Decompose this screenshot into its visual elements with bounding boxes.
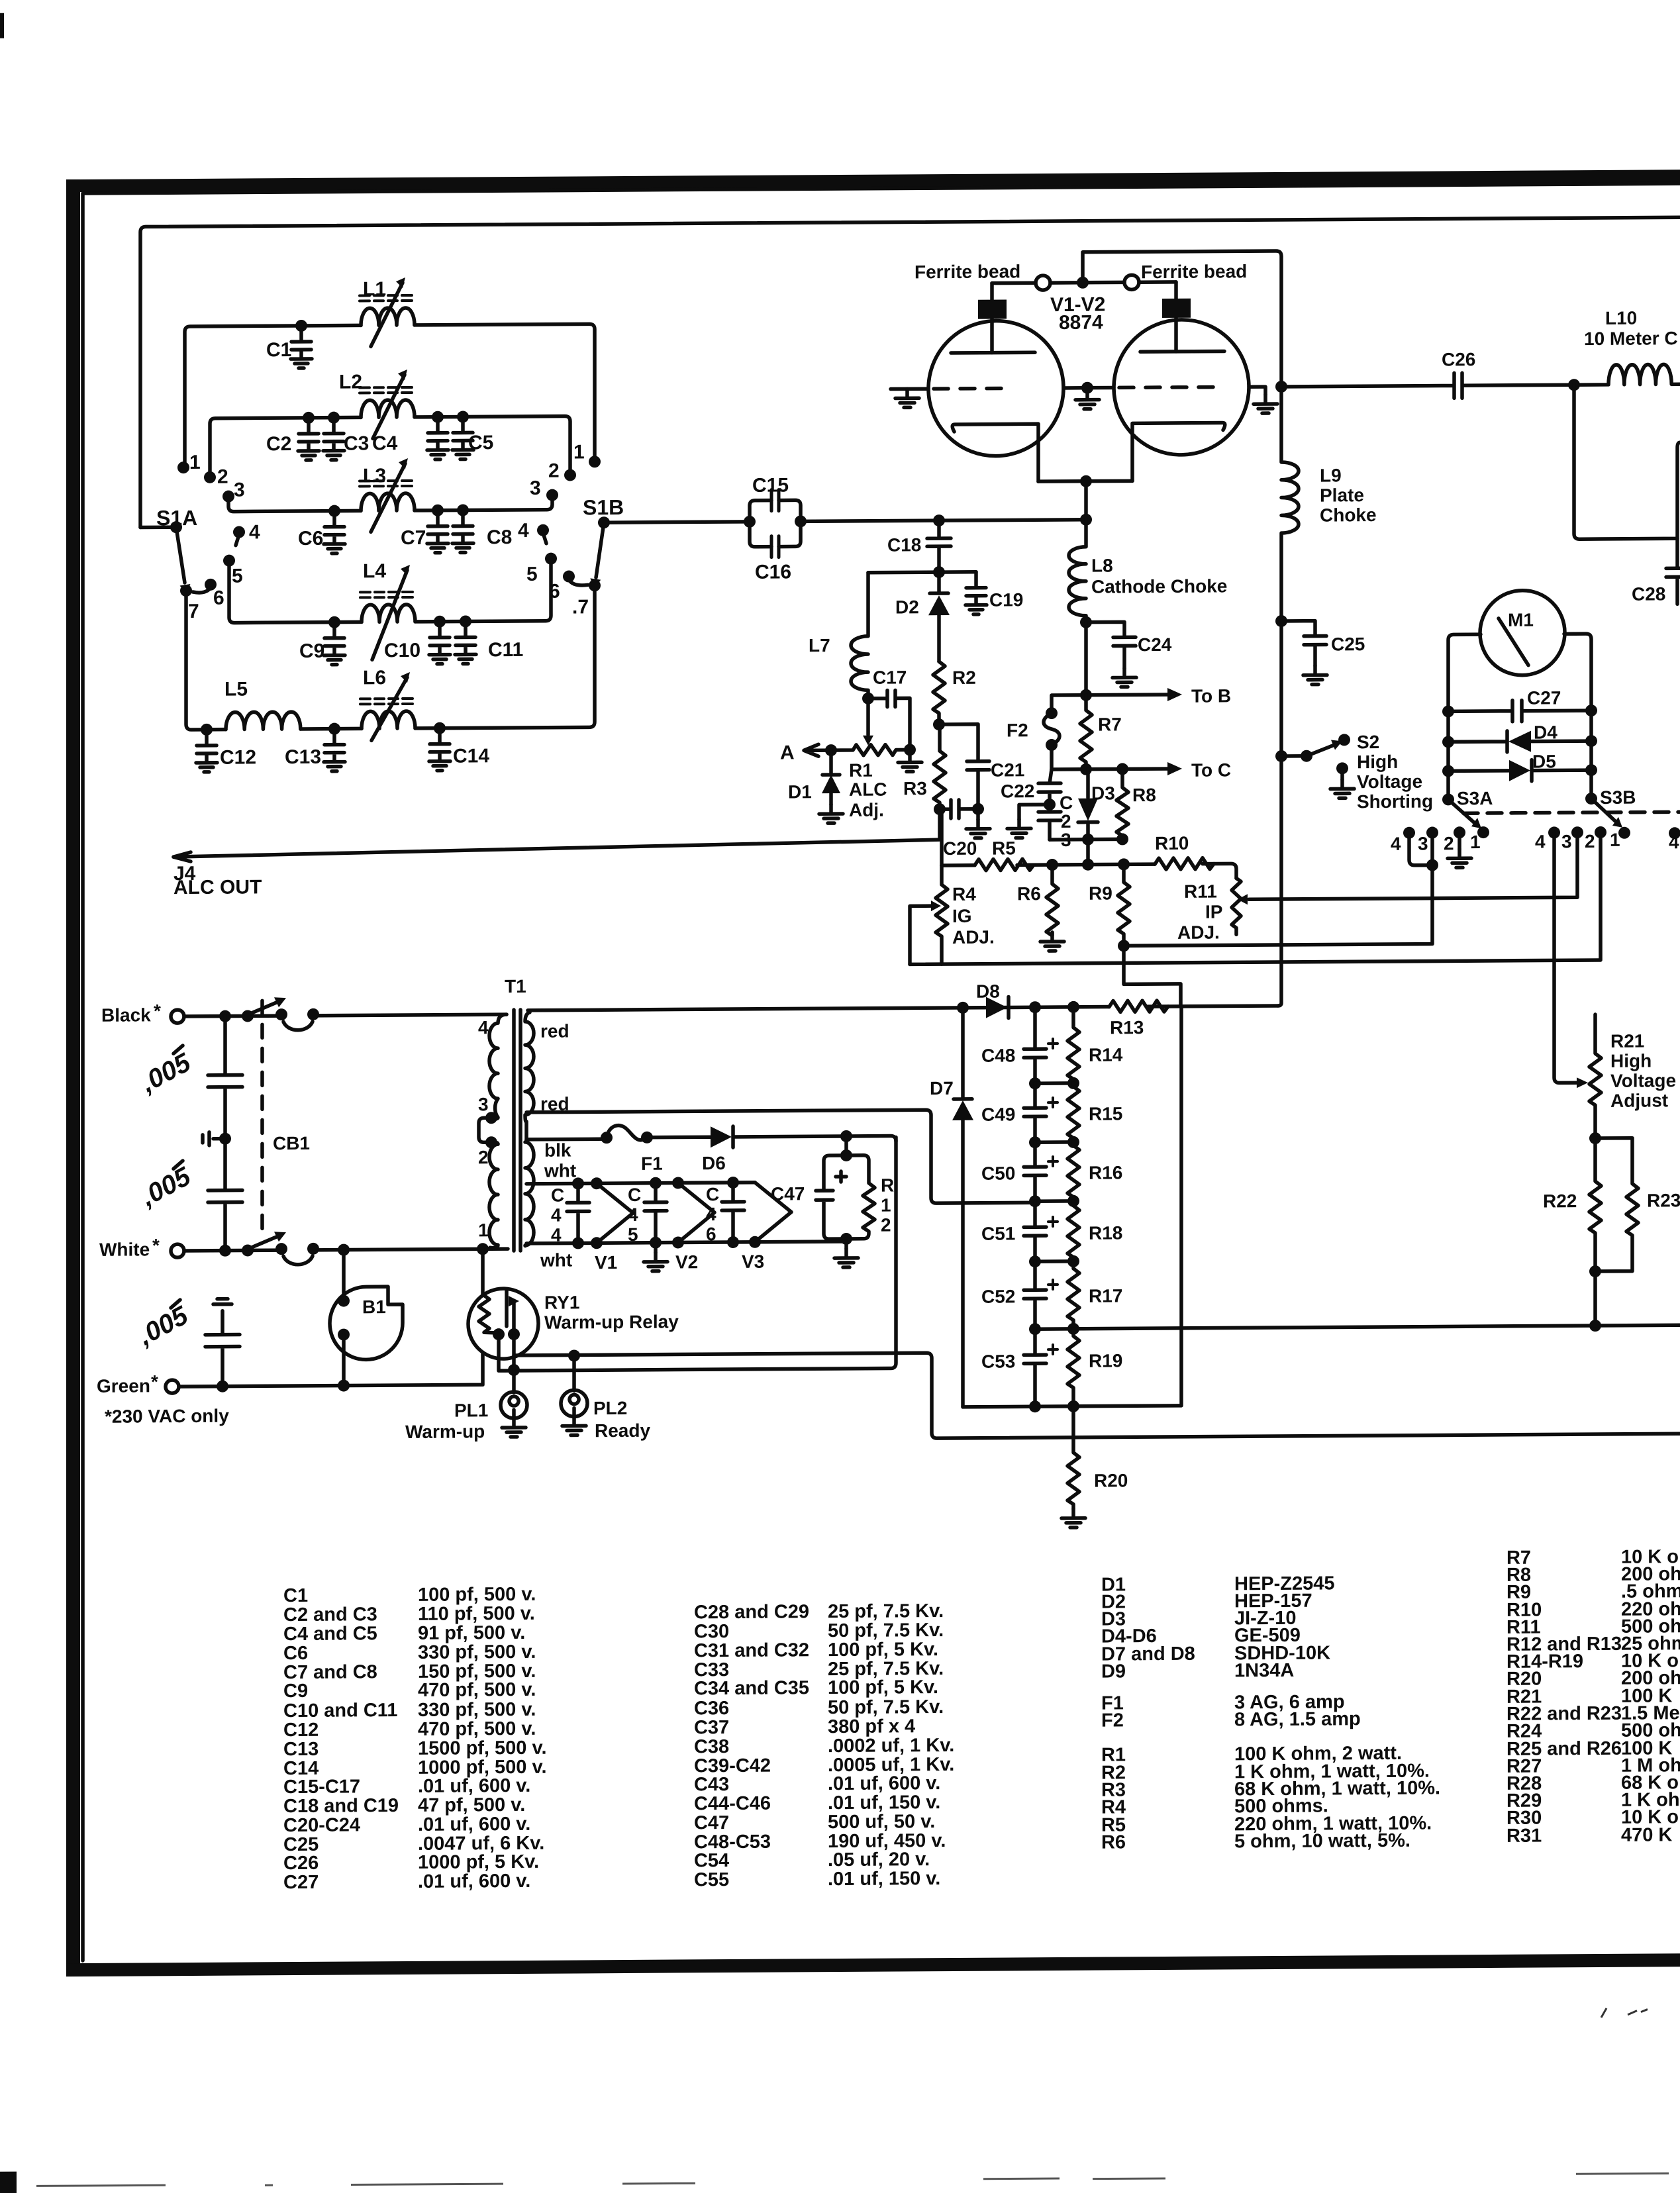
svg-text:R1: R1 [849, 760, 873, 781]
wire cathode bridge [1038, 481, 1132, 520]
wire S1A common [140, 525, 176, 529]
svg-text:Voltage: Voltage [1357, 771, 1422, 793]
svg-text:Green: Green [97, 1375, 150, 1396]
svg-text:4: 4 [249, 521, 260, 543]
capacitor C4 [427, 417, 448, 460]
capacitor C11 [455, 621, 476, 663]
svg-text:C2: C2 [266, 433, 291, 455]
wire green rail [179, 1352, 483, 1387]
inductor L3 [360, 458, 415, 532]
svg-text:C: C [551, 1185, 564, 1206]
svg-text:5 ohm, 10 watt, 5%.: 5 ohm, 10 watt, 5%. [1234, 1830, 1410, 1853]
relay RY1 [468, 1289, 538, 1359]
resistor R3 [934, 724, 946, 809]
svg-text:4: 4 [518, 520, 529, 542]
svg-text:50 pf, 7.5 Kv.: 50 pf, 7.5 Kv. [828, 1696, 944, 1718]
capacitor C1 [291, 326, 312, 368]
wire R9 link to ladder [1124, 946, 1181, 1006]
svg-text:Adj.: Adj. [849, 800, 884, 820]
svg-text:4: 4 [706, 1204, 716, 1224]
diode D5 [1442, 751, 1597, 781]
svg-text:1: 1 [189, 452, 201, 473]
breaker CB1 dashed [260, 1000, 264, 1231]
wire L4 row [229, 559, 551, 623]
resistor R18 [1067, 1201, 1079, 1261]
svg-text:8874: 8874 [1059, 312, 1103, 334]
svg-text:PL1: PL1 [454, 1400, 488, 1420]
svg-text:R10: R10 [1155, 833, 1189, 853]
ground grid left [895, 389, 919, 407]
svg-text:C1: C1 [283, 1585, 308, 1606]
connector J4 arrow [173, 852, 191, 861]
capacitor C20 [940, 800, 978, 820]
resistor R9 [1118, 864, 1130, 946]
resistor R10 [1155, 858, 1214, 870]
svg-text:C34 and C35: C34 and C35 [694, 1677, 809, 1699]
capacitor C48 [1024, 1007, 1058, 1083]
resistor R22 [1589, 1138, 1601, 1271]
svg-text:S1B: S1B [583, 495, 624, 519]
wire R11 wiper to S3B-3 [1249, 832, 1577, 899]
wire T1 wht tap / C44 row top rail [526, 1183, 755, 1184]
svg-text:S2: S2 [1357, 732, 1379, 752]
svg-text:L2: L2 [339, 371, 362, 393]
svg-text:F2: F2 [1007, 720, 1028, 740]
svg-text:2: 2 [548, 460, 560, 482]
wire J4 ALC line [173, 810, 940, 857]
svg-text:6: 6 [549, 581, 560, 603]
svg-text:L10: L10 [1605, 308, 1637, 328]
S1A contact 2 [204, 471, 216, 483]
svg-text:C14: C14 [453, 745, 489, 767]
svg-text:C49: C49 [981, 1104, 1015, 1124]
svg-text:C15: C15 [752, 474, 789, 496]
svg-text:5: 5 [628, 1224, 638, 1245]
S1A contact 4 [233, 526, 245, 538]
svg-text:ALC: ALC [849, 779, 887, 800]
svg-text:50 pf, 7.5 Kv.: 50 pf, 7.5 Kv. [828, 1620, 944, 1641]
S1A contact 5 [223, 555, 235, 567]
node C26/L10 [1568, 379, 1580, 391]
svg-text:1000 pf, 5 Kv.: 1000 pf, 5 Kv. [418, 1851, 539, 1873]
svg-text:4: 4 [628, 1204, 638, 1225]
diode D4 [1442, 722, 1597, 752]
wire To C row [1052, 769, 1171, 769]
svg-text:White: White [99, 1239, 150, 1259]
svg-text:C27: C27 [283, 1872, 319, 1893]
svg-text:Warm-up Relay: Warm-up Relay [544, 1311, 679, 1332]
capacitor C51 [1024, 1201, 1058, 1261]
svg-text:3: 3 [478, 1094, 489, 1114]
svg-text:B1: B1 [362, 1296, 386, 1317]
svg-text:91 pf, 500 v.: 91 pf, 500 v. [418, 1622, 525, 1644]
suppressor bead V2 (rect) [1174, 282, 1178, 352]
svg-text:R23: R23 [1647, 1190, 1680, 1210]
wire S3B-4 to R21 wiper [1554, 832, 1577, 1083]
wire meter frame [1448, 634, 1591, 799]
svg-text:D8: D8 [976, 981, 1000, 1002]
svg-text:C37: C37 [694, 1717, 729, 1738]
resistor R7 [1080, 695, 1092, 769]
wire C22 ground arm [1019, 804, 1050, 819]
switch S2 [1275, 750, 1287, 762]
svg-text:R18: R18 [1089, 1222, 1122, 1243]
svg-text:C25: C25 [1331, 634, 1365, 654]
svg-text:10 Meter C: 10 Meter C [1584, 328, 1678, 349]
svg-text:7: 7 [188, 601, 199, 622]
wire L3 row [228, 495, 552, 512]
resistor R14 [1067, 1007, 1079, 1083]
svg-text:PL2: PL2 [593, 1398, 627, 1418]
svg-text:,005: ,005 [136, 1161, 196, 1212]
svg-text:4: 4 [1535, 832, 1546, 852]
svg-text:.7: .7 [572, 596, 589, 618]
capacitor C44 [567, 1183, 589, 1243]
svg-text:C: C [628, 1185, 641, 1205]
svg-text:4: 4 [1669, 832, 1679, 852]
svg-text:R19: R19 [1089, 1350, 1122, 1371]
svg-text:C54: C54 [694, 1850, 729, 1871]
switch S1B [518, 441, 624, 618]
node A arrow [804, 744, 831, 756]
svg-text:6: 6 [706, 1224, 716, 1244]
svg-text:R16: R16 [1089, 1162, 1122, 1183]
svg-text:R20: R20 [1094, 1470, 1128, 1490]
svg-text:RY1: RY1 [544, 1292, 579, 1312]
svg-text:100 pf, 500 v.: 100 pf, 500 v. [418, 1584, 536, 1606]
svg-text:2: 2 [1585, 831, 1595, 852]
svg-text:D6: D6 [702, 1153, 726, 1173]
S1B contact 2 [564, 469, 576, 481]
svg-text:,005: ,005 [136, 1048, 196, 1098]
S1B contact 4 [537, 524, 549, 536]
wire plate bead line [992, 251, 1281, 389]
cathode bar V2 [1132, 422, 1225, 481]
tube V2 envelope [1114, 319, 1249, 455]
svg-text:ADJ.: ADJ. [952, 927, 995, 948]
S1B wiper [596, 522, 604, 577]
node grid center [1081, 382, 1093, 394]
svg-text:1: 1 [1470, 832, 1481, 852]
capacitor C27 [1448, 700, 1591, 722]
svg-text:R: R [881, 1175, 894, 1196]
svg-text:4: 4 [551, 1205, 562, 1226]
svg-text:C4 and C5: C4 and C5 [283, 1623, 377, 1645]
wire F1 to D6 [647, 1135, 711, 1139]
wire RY1 right contact rail [514, 1327, 1680, 1441]
diode D6 [711, 1126, 732, 1147]
lamp PL2 [568, 1349, 580, 1361]
svg-text:C7: C7 [401, 527, 426, 549]
capacitor C47 / resistor R12 parallel [840, 1149, 852, 1161]
svg-text:5: 5 [526, 563, 538, 585]
svg-text:Ferrite bead: Ferrite bead [914, 261, 1020, 282]
capacitor C52 [1024, 1261, 1058, 1329]
svg-text:C4: C4 [372, 432, 398, 454]
svg-text:red: red [540, 1021, 569, 1042]
svg-text:C22: C22 [1001, 781, 1034, 801]
svg-text:C: C [706, 1184, 719, 1204]
svg-text:*230 VAC only: *230 VAC only [105, 1406, 229, 1427]
capacitor C19 [939, 570, 976, 574]
ferrite bead right [1124, 275, 1139, 289]
potentiometer R1 wiper [866, 699, 870, 735]
svg-text:C2 and C3: C2 and C3 [283, 1604, 377, 1626]
svg-text:C52: C52 [981, 1286, 1015, 1306]
dashed gang line S3 [1463, 812, 1680, 813]
S1B contact 1 [589, 456, 601, 467]
grid line with dashes [891, 387, 1265, 397]
svg-text:L7: L7 [809, 635, 830, 656]
wire C16 to C18 to cathode [801, 520, 1086, 522]
svg-text:C1: C1 [266, 339, 291, 361]
svg-text:2: 2 [881, 1215, 891, 1236]
S3B contact 1 [1618, 827, 1630, 839]
svg-text:1: 1 [478, 1220, 489, 1240]
svg-text:F1: F1 [641, 1153, 663, 1174]
svg-text:C55: C55 [694, 1869, 729, 1890]
svg-text:To B: To B [1191, 685, 1231, 706]
svg-text:D1: D1 [788, 781, 812, 802]
svg-text:R17: R17 [1089, 1285, 1122, 1306]
resistor R5 [975, 859, 1034, 871]
svg-text:L8: L8 [1091, 555, 1113, 575]
S3A contact 3 [1426, 826, 1438, 838]
svg-text:L3: L3 [363, 465, 386, 487]
capacitor C28 [1666, 538, 1680, 604]
wire RY1 left contact rail [499, 1137, 896, 1371]
plate bar V1 [951, 350, 1035, 354]
capacitor C3 [323, 418, 344, 460]
svg-text:Warm-up: Warm-up [405, 1421, 485, 1442]
svg-text:C13: C13 [283, 1739, 319, 1760]
S1A wiper [176, 527, 185, 583]
svg-text:Voltage: Voltage [1610, 1070, 1676, 1091]
ground grid right [1254, 395, 1277, 413]
svg-text:2: 2 [1444, 833, 1454, 853]
svg-text:ALC OUT: ALC OUT [173, 876, 262, 899]
svg-text:High: High [1357, 752, 1398, 772]
T1 core [514, 1010, 520, 1251]
inductor L7 [851, 573, 868, 699]
inductor L4 [360, 565, 415, 660]
arrow To B [1167, 688, 1182, 701]
wire D6 node to RY1 branch [840, 1130, 852, 1142]
blower B1 [330, 1287, 403, 1360]
switch S3A [1442, 793, 1454, 805]
svg-text:C18: C18 [887, 534, 921, 555]
border frame: outer thick [66, 170, 1680, 1976]
svg-text:L1: L1 [363, 278, 386, 300]
ferrite bead left [1036, 275, 1050, 290]
svg-text:C15-C17: C15-C17 [283, 1776, 360, 1798]
svg-text:C3: C3 [344, 432, 369, 454]
capacitor C9 [324, 622, 345, 665]
resistor R16 [1067, 1142, 1079, 1201]
wire black rail [184, 1014, 507, 1016]
svg-text:C53: C53 [981, 1351, 1015, 1371]
svg-text:5: 5 [232, 565, 243, 587]
resistor R8 [1116, 769, 1128, 839]
svg-text:C27: C27 [1527, 687, 1561, 708]
breaker contact black [275, 1008, 287, 1020]
svg-text:Black: Black [101, 1004, 151, 1025]
svg-text:C9: C9 [283, 1681, 308, 1702]
svg-text:2: 2 [1061, 811, 1071, 832]
svg-text:110 pf, 500 v.: 110 pf, 500 v. [418, 1603, 535, 1625]
capacitor C45 [644, 1183, 667, 1243]
diode D8 [986, 997, 1007, 1018]
svg-text:3: 3 [234, 479, 245, 501]
svg-text:R6: R6 [1101, 1831, 1126, 1853]
diode D3 [1078, 769, 1115, 839]
svg-text:C12: C12 [283, 1720, 319, 1741]
ground secondary mid [654, 1243, 658, 1253]
svg-text:S3A: S3A [1457, 788, 1493, 808]
capacitor C17 [868, 690, 910, 746]
svg-text:V3: V3 [742, 1251, 764, 1272]
svg-text:.01 uf, 600 v.: .01 uf, 600 v. [828, 1773, 940, 1794]
S3A contact 2 [1454, 826, 1465, 838]
svg-text:R3: R3 [903, 778, 927, 799]
resistor R13 [1109, 1000, 1168, 1012]
svg-text:.01 uf, 600 v.: .01 uf, 600 v. [418, 1871, 530, 1892]
capacitor C13 [324, 729, 345, 771]
wire R4 wiper rail to S3B-2 [910, 832, 1601, 964]
resistor R17 [1067, 1261, 1079, 1329]
svg-text:R7: R7 [1098, 714, 1122, 734]
plate bar V2 [1140, 350, 1224, 354]
svg-text:R2: R2 [952, 667, 976, 688]
svg-text:C43: C43 [694, 1774, 729, 1795]
svg-text:IG: IG [952, 906, 972, 926]
resistor R15 [1067, 1083, 1079, 1142]
S3C contact 4 (cut) [1669, 827, 1680, 839]
arrow To C [1167, 762, 1182, 775]
svg-text:6: 6 [213, 587, 224, 609]
S1B contact 6 [563, 570, 575, 582]
svg-text:C8: C8 [487, 526, 512, 548]
resistor R20 [1067, 1406, 1079, 1509]
svg-text:V1: V1 [595, 1252, 617, 1273]
svg-text:L6: L6 [363, 667, 386, 689]
wire T1 red top rail [528, 1006, 1278, 1010]
svg-text:R15: R15 [1089, 1103, 1122, 1124]
svg-text:To C: To C [1191, 759, 1231, 780]
svg-text:Adjust: Adjust [1610, 1090, 1668, 1111]
svg-text:R31: R31 [1507, 1826, 1542, 1847]
capacitor C18 [927, 520, 951, 572]
svg-text:C44-C46: C44-C46 [694, 1793, 771, 1815]
inductor L5 [226, 712, 301, 730]
ground grid center [1075, 391, 1099, 409]
svg-text:1: 1 [881, 1195, 891, 1216]
svg-text:100 pf, 5 Kv.: 100 pf, 5 Kv. [828, 1639, 938, 1661]
spark gap V2 [678, 1183, 715, 1242]
svg-text:3: 3 [1418, 834, 1428, 854]
S1B contact 5 [545, 553, 557, 565]
T1 secondary LV winding [525, 1142, 534, 1246]
svg-text:C10: C10 [384, 640, 420, 661]
svg-text:.01 uf, 150 v.: .01 uf, 150 v. [828, 1792, 940, 1814]
node bead junction [1077, 277, 1089, 289]
svg-text:C30: C30 [694, 1621, 729, 1642]
capacitor C21 [940, 724, 989, 809]
svg-text:C6: C6 [283, 1643, 308, 1664]
svg-text:blk: blk [544, 1140, 571, 1160]
svg-text:C36: C36 [694, 1698, 729, 1719]
fuse F2 [1044, 695, 1086, 769]
svg-text:Plate: Plate [1320, 485, 1364, 505]
svg-text:T1: T1 [505, 976, 526, 997]
svg-text:C11: C11 [488, 639, 523, 661]
svg-text:330 pf, 500 v.: 330 pf, 500 v. [418, 1699, 536, 1721]
svg-text:*: * [154, 1000, 161, 1021]
svg-text:8 AG, 1.5 amp: 8 AG, 1.5 amp [1234, 1708, 1361, 1730]
S3A contact 1 [1477, 826, 1489, 838]
wire B+ vertical [1278, 621, 1281, 1006]
capacitor C46 [722, 1183, 744, 1242]
svg-text:4: 4 [478, 1017, 489, 1038]
svg-text:C48: C48 [981, 1045, 1015, 1065]
capacitor C5 [452, 416, 473, 459]
fuse F1 [601, 1132, 613, 1144]
T1 primary winding [489, 1014, 507, 1248]
svg-text:F2: F2 [1101, 1710, 1124, 1731]
wire T1 3-2 jumper [479, 1118, 491, 1142]
svg-text:470 pf, 500 v.: 470 pf, 500 v. [418, 1718, 536, 1740]
wire C18 node to L7 [868, 570, 939, 574]
inductor L9 plate choke [1281, 387, 1299, 620]
svg-text:L5: L5 [224, 678, 248, 700]
wire top rail [140, 217, 1680, 527]
svg-text:1: 1 [1610, 830, 1620, 850]
resistor R2 [933, 661, 945, 724]
svg-text:,005: ,005 [133, 1300, 193, 1351]
svg-text:R6: R6 [1017, 883, 1041, 904]
wire S1B to C15 [604, 522, 750, 522]
wire white rail [184, 1249, 508, 1251]
S1A contact 1 [177, 462, 189, 473]
svg-text:R11: R11 [1184, 881, 1217, 902]
S3B contact 3 [1571, 826, 1583, 838]
svg-text:470 K: 470 K [1621, 1824, 1672, 1845]
svg-text:R9: R9 [1089, 883, 1112, 903]
svg-text:C50: C50 [981, 1163, 1015, 1183]
svg-text:3: 3 [1561, 831, 1572, 852]
svg-text:C28 and C29: C28 and C29 [694, 1601, 809, 1623]
svg-text:Shorting: Shorting [1357, 791, 1433, 812]
svg-text:D2: D2 [895, 597, 919, 617]
svg-text:C21: C21 [991, 759, 1024, 780]
cathode bar V1 [952, 424, 1038, 482]
svg-text:.01 uf, 600 v.: .01 uf, 600 v. [418, 1814, 530, 1835]
svg-text:D9: D9 [1101, 1661, 1126, 1682]
svg-text:wht: wht [544, 1160, 576, 1181]
wire red top to D8 rail [957, 1002, 969, 1014]
svg-text:47 pf, 500 v.: 47 pf, 500 v. [418, 1794, 525, 1816]
svg-text:L4: L4 [363, 560, 386, 582]
potentiometer R1 [831, 744, 910, 755]
S1B contact 3 [546, 489, 558, 501]
svg-text:Choke: Choke [1320, 505, 1377, 526]
svg-text:C47: C47 [694, 1812, 729, 1833]
svg-text:Ferrite bead: Ferrite bead [1141, 261, 1247, 282]
capacitor C15 C16 parallel pair [750, 489, 801, 557]
svg-text:R13: R13 [1110, 1017, 1144, 1038]
svg-text:2: 2 [478, 1147, 489, 1167]
svg-text:C6: C6 [298, 528, 323, 550]
